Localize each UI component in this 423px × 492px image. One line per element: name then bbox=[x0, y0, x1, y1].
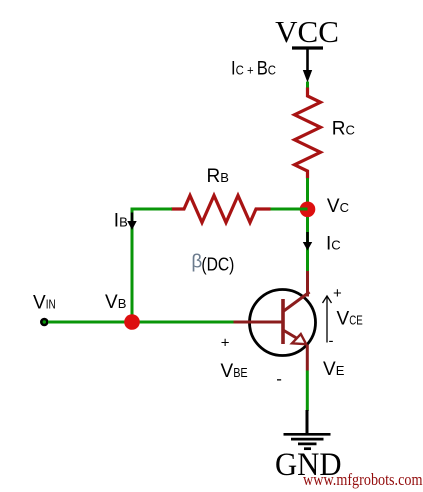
transistor collector stroke bbox=[283, 292, 310, 312]
wire (VIN to base, green) bbox=[48, 321, 234, 324]
svg-text:VB: VB bbox=[105, 292, 126, 313]
resistor RC bbox=[295, 88, 321, 179]
svg-text:VCE: VCE bbox=[337, 308, 363, 329]
current arrow Ic+Bc (down from VCC rail) bbox=[303, 49, 312, 83]
ground symbol bbox=[284, 434, 331, 448]
transistor Q1 body bbox=[250, 290, 316, 356]
svg-text:(DC): (DC) bbox=[201, 254, 234, 275]
svg-text:VCC: VCC bbox=[275, 14, 339, 49]
svg-text:VIN: VIN bbox=[33, 293, 56, 314]
svg-text:VC: VC bbox=[327, 196, 349, 217]
wire (emitter lead, dark red) bbox=[306, 345, 309, 371]
transistor base bar bbox=[281, 299, 285, 344]
VCC rail bar bbox=[292, 46, 323, 49]
transistor base lead (dark red) bbox=[234, 321, 284, 324]
wire (resistor RC to node VC, green, continues to collector) bbox=[306, 178, 309, 272]
transistor emitter stroke bbox=[283, 330, 299, 340]
svg-text:-: - bbox=[329, 333, 334, 350]
current arrow IB bbox=[127, 213, 136, 231]
svg-text:RB: RB bbox=[207, 166, 229, 187]
wire (green stub below arrow) bbox=[306, 82, 309, 90]
svg-text:IC + BC: IC + BC bbox=[231, 59, 276, 80]
wire (emitter to ground, green) bbox=[306, 371, 309, 412]
input terminal bbox=[41, 319, 47, 325]
node VB bbox=[124, 314, 140, 330]
wire (RB to node VC, green) bbox=[268, 208, 308, 211]
svg-text:www.mfgrobots.com: www.mfgrobots.com bbox=[303, 470, 423, 489]
node VC bbox=[300, 202, 316, 218]
wire (corner: RB left to node VB, green) bbox=[132, 209, 172, 322]
svg-text:+: + bbox=[221, 334, 230, 351]
wire (collector lead, dark red) bbox=[306, 271, 309, 297]
ground stem bbox=[306, 410, 309, 434]
svg-text:VBE: VBE bbox=[221, 361, 248, 382]
svg-text:IC: IC bbox=[326, 234, 341, 255]
voltage arrow VCE bbox=[323, 296, 332, 343]
current arrow IC bbox=[303, 232, 312, 251]
svg-text:+: + bbox=[333, 285, 342, 302]
transistor emitter arrowhead bbox=[292, 334, 306, 344]
svg-text:RC: RC bbox=[332, 119, 355, 140]
resistor RB bbox=[171, 196, 271, 223]
svg-text:VE: VE bbox=[323, 359, 345, 380]
svg-text:-: - bbox=[276, 370, 282, 389]
svg-text:IB: IB bbox=[114, 211, 128, 232]
